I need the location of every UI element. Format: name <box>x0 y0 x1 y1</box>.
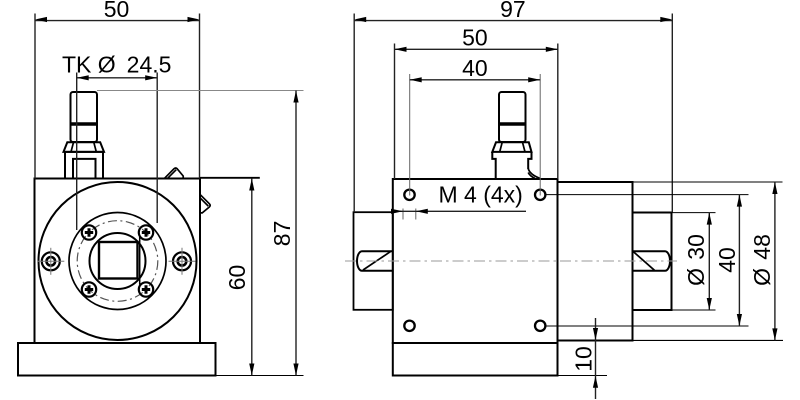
base plate side <box>393 343 558 376</box>
connector side: nut facets <box>500 142 503 152</box>
dimension TK D24.5: ext lines <box>76 73 78 231</box>
left shaft stub <box>357 251 393 271</box>
svg-text:M 4 (4x): M 4 (4x) <box>439 182 523 208</box>
svg-text:97: 97 <box>500 0 526 22</box>
base plate front <box>18 343 216 376</box>
svg-text:Ø 48: Ø 48 <box>749 234 775 286</box>
center line <box>345 260 677 262</box>
svg-text:40: 40 <box>714 247 740 273</box>
chamfer edge line <box>139 237 141 285</box>
dimension 40 right: line <box>738 195 740 326</box>
connector front: nut facets <box>71 142 74 152</box>
dimension 87: line <box>295 91 297 376</box>
dimension 97: ext lines <box>353 14 355 213</box>
svg-text:10: 10 <box>571 346 597 372</box>
right shaft stub <box>633 251 670 271</box>
flange circle D48 <box>39 182 197 340</box>
M4 hole BR <box>535 321 545 331</box>
screw TL <box>82 225 96 239</box>
connector side: ring band <box>499 122 526 126</box>
screw TR <box>139 225 153 239</box>
bolt circle TK24.5 dash-dot <box>77 221 158 302</box>
dimension 40 top: line <box>410 79 541 81</box>
side hole right <box>169 248 196 275</box>
svg-text:TK Ø 24.5: TK Ø 24.5 <box>62 52 171 78</box>
ext lines right side horizontals <box>633 181 783 183</box>
cable gland wedge on right edge <box>200 194 210 213</box>
dimension D48: line <box>774 182 776 340</box>
dimension 60: line <box>251 179 253 376</box>
connector side: cylinder <box>499 92 526 142</box>
svg-text:40: 40 <box>462 55 488 81</box>
dimension 50 top-left: ext lines <box>34 14 36 179</box>
svg-text:50: 50 <box>462 25 488 51</box>
ext line connector top (87) <box>97 90 304 92</box>
dimension 50 right view: ext lines <box>394 44 396 180</box>
connector front: base block <box>65 152 103 179</box>
dimension TK D24.5: line <box>77 77 158 79</box>
M4 hole BL <box>404 321 414 331</box>
body housing side <box>393 179 558 343</box>
dimension 50 top-left: line <box>35 20 200 22</box>
hub D30 side <box>633 213 672 311</box>
connector side: nut trapezoid <box>492 142 531 152</box>
ext line body top to 60 dim <box>200 177 260 179</box>
flange disc D48 side <box>558 182 633 341</box>
M4 callout: ext lines <box>402 209 404 220</box>
M4 callout: leader <box>392 210 527 212</box>
svg-text:50: 50 <box>104 0 130 22</box>
square drive hole <box>99 242 138 279</box>
svg-text:60: 60 <box>224 265 250 291</box>
connector side: stepped base <box>492 152 531 179</box>
connector front: ring band <box>71 122 98 126</box>
connector front: inner step <box>73 159 96 179</box>
hub circle D30 <box>69 213 166 310</box>
side hole left <box>37 248 64 275</box>
svg-text:Ø 30: Ø 30 <box>683 234 709 286</box>
cable gland wedge on top edge <box>165 168 184 178</box>
dimension 50 right view: line <box>395 48 558 50</box>
dimension 10: line <box>595 318 597 399</box>
bore circle <box>90 233 146 289</box>
screw BL <box>82 282 96 296</box>
screw BR <box>139 282 153 296</box>
M4 hole TR <box>535 190 545 200</box>
connector front: nut trapezoid <box>64 142 105 152</box>
body housing front <box>35 179 201 344</box>
dimension D30: line <box>708 213 710 310</box>
cable gland side <box>528 169 540 179</box>
svg-text:87: 87 <box>269 221 295 247</box>
connector front: cylinder <box>71 92 98 142</box>
dimension 40 top: ext lines <box>409 74 411 196</box>
M4 hole TL <box>404 190 414 200</box>
dimension 97: line <box>354 20 672 22</box>
clamp plate left <box>354 212 393 310</box>
ext line base bottom right <box>216 375 304 377</box>
